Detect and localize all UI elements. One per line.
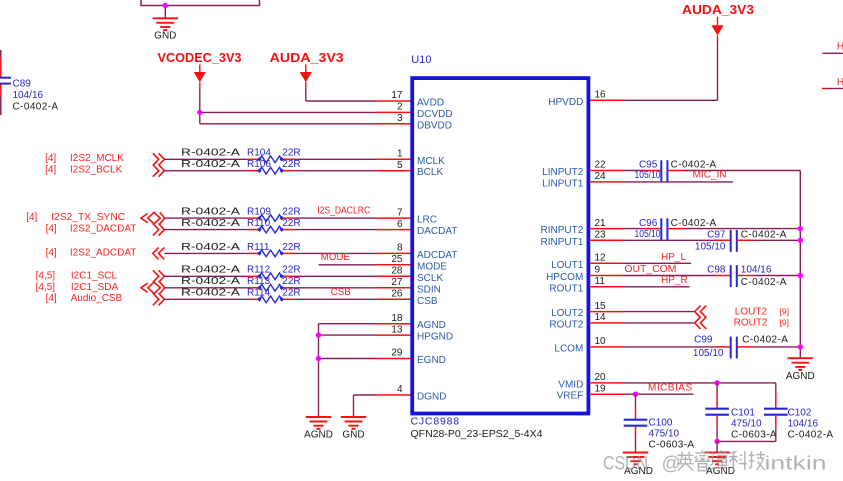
svg-text:HP_L: HP_L [661,252,686,263]
svg-text:I2S2_TX_SYNC: I2S2_TX_SYNC [51,212,125,223]
svg-text:23: 23 [595,230,607,241]
svg-text:27: 27 [391,277,403,288]
svg-text:C-0402-A: C-0402-A [741,277,787,288]
svg-text:AGND: AGND [417,320,446,331]
svg-text:C-0402-A: C-0402-A [13,101,59,112]
svg-text:22R: 22R [282,265,300,276]
svg-text:17: 17 [391,90,403,101]
svg-text:R-0402-A: R-0402-A [181,276,240,287]
svg-text:HPVDD: HPVDD [548,97,583,108]
svg-text:7: 7 [397,207,403,218]
svg-text:ROUT1: ROUT1 [549,283,583,294]
svg-text:22: 22 [595,160,607,171]
svg-text:22R: 22R [282,218,300,229]
svg-text:SCLK: SCLK [417,273,443,284]
svg-text:R-0402-A: R-0402-A [181,265,240,276]
svg-text:2: 2 [397,102,403,113]
svg-text:19: 19 [595,383,607,394]
svg-text:[4]: [4] [45,164,56,175]
svg-text:4: 4 [397,384,403,395]
svg-text:R112: R112 [247,265,271,276]
svg-text:OUT_COM: OUT_COM [624,263,676,275]
svg-text:GND: GND [154,31,176,42]
svg-text:R110: R110 [247,218,271,229]
svg-text:SDIN: SDIN [417,284,441,295]
svg-text:BCLK: BCLK [417,167,443,178]
svg-text:LRC: LRC [417,215,437,226]
svg-text:C96: C96 [639,218,658,229]
svg-text:R111: R111 [247,242,270,253]
svg-text:CSB: CSB [417,296,438,307]
svg-text:[4]: [4] [45,153,56,164]
svg-text:AUDA_3V3: AUDA_3V3 [270,50,344,65]
svg-text:[4,5]: [4,5] [36,270,56,281]
svg-text:22R: 22R [282,288,300,299]
svg-text:6: 6 [397,219,403,230]
svg-text:3: 3 [397,113,403,124]
svg-text:RINPUT1: RINPUT1 [541,237,584,248]
svg-text:H: H [837,42,843,53]
svg-text:DGND: DGND [417,392,446,403]
svg-text:I2C1_SDA: I2C1_SDA [71,282,119,293]
svg-text:R-0402-A: R-0402-A [181,288,240,299]
svg-text:24: 24 [595,171,607,182]
svg-text:C-0603-A: C-0603-A [731,429,777,440]
svg-text:C99: C99 [694,334,713,345]
svg-text:R-0402-A: R-0402-A [181,159,240,170]
svg-text:Audio_CSB: Audio_CSB [71,293,123,304]
svg-text:R-0402-A: R-0402-A [181,218,240,229]
svg-text:R113: R113 [247,276,271,287]
svg-text:C102: C102 [788,407,812,418]
svg-text:LOUT1: LOUT1 [551,260,584,271]
svg-text:[4]: [4] [26,212,37,223]
svg-text:GND: GND [342,430,364,441]
svg-text:C-0402-A: C-0402-A [741,230,787,241]
svg-text:CJC8988: CJC8988 [411,416,460,428]
svg-text:22R: 22R [282,276,300,287]
svg-text:104/16: 104/16 [741,264,772,275]
svg-text:22R: 22R [282,207,300,218]
svg-text:[4]: [4] [46,293,57,304]
svg-text:11: 11 [595,276,606,287]
svg-text:I2S2_ADCDAT: I2S2_ADCDAT [70,248,137,259]
svg-text:MODE: MODE [321,252,350,263]
svg-text:29: 29 [391,348,403,359]
svg-text:LINPUT2: LINPUT2 [542,167,584,178]
svg-text:VMID: VMID [558,379,583,390]
svg-text:R106: R106 [247,159,271,170]
svg-text:ROUT2: ROUT2 [734,317,768,328]
svg-text:26: 26 [391,289,403,300]
svg-text:12: 12 [595,253,607,264]
svg-text:AGND: AGND [786,371,815,382]
svg-text:LCOM: LCOM [554,343,583,354]
svg-text:105/10: 105/10 [635,229,661,240]
svg-text:I2S2_BCLK: I2S2_BCLK [70,164,123,175]
svg-text:22R: 22R [282,148,300,159]
svg-text:15: 15 [595,301,607,312]
svg-text:HPGND: HPGND [417,332,453,343]
svg-text:C97: C97 [707,230,726,241]
svg-text:HPCOM: HPCOM [546,272,583,283]
svg-text:9: 9 [595,265,601,276]
svg-text:C-0402-A: C-0402-A [671,218,717,229]
svg-text:C-0402-A: C-0402-A [788,429,834,440]
svg-text:LOUT2: LOUT2 [551,308,584,319]
svg-text:ADCDAT: ADCDAT [417,250,457,261]
svg-text:[4]: [4] [46,248,57,259]
svg-text:AUDA_3V3: AUDA_3V3 [682,2,754,17]
svg-text:104/16: 104/16 [788,418,819,429]
svg-text:CSB: CSB [331,287,351,298]
svg-text:10: 10 [595,336,607,347]
svg-text:22R: 22R [282,159,300,170]
svg-text:8: 8 [397,243,403,254]
svg-text:H: H [837,77,843,88]
svg-text:I2S2_DACDAT: I2S2_DACDAT [70,224,137,235]
svg-text:28: 28 [391,266,403,277]
svg-text:MIC_IN: MIC_IN [693,169,727,180]
svg-text:C-0402-A: C-0402-A [742,334,788,345]
svg-text:C100: C100 [649,417,673,428]
svg-text:QFN28-P0_23-EPS2_5-4X4: QFN28-P0_23-EPS2_5-4X4 [411,428,543,440]
svg-text:[4]: [4] [46,224,57,235]
svg-text:VCODEC_3V3: VCODEC_3V3 [158,50,242,65]
svg-text:I2S2_MCLK: I2S2_MCLK [70,153,124,164]
svg-text:25: 25 [391,254,403,265]
svg-text:DACDAT: DACDAT [417,226,457,237]
svg-text:AVDD: AVDD [417,98,444,109]
svg-text:C89: C89 [13,79,32,90]
svg-text:CSDN: CSDN [603,454,648,475]
svg-text:21: 21 [595,218,607,229]
svg-text:20: 20 [595,372,607,383]
svg-text:[9]: [9] [780,307,789,317]
svg-text:R-0402-A: R-0402-A [181,148,240,159]
svg-text:ROUT2: ROUT2 [549,319,583,330]
svg-text:MICBIAS: MICBIAS [648,382,693,393]
svg-text:C-0603-A: C-0603-A [649,439,695,450]
svg-text:R-0402-A: R-0402-A [181,207,240,218]
svg-text:1: 1 [397,149,403,160]
svg-text:RINPUT2: RINPUT2 [541,225,584,236]
svg-text:5: 5 [397,160,403,171]
svg-text:104/16: 104/16 [13,90,44,101]
svg-text:HP_R: HP_R [661,275,688,286]
svg-text:13: 13 [391,324,403,335]
svg-text:475/10: 475/10 [731,418,762,429]
svg-text:C101: C101 [731,407,755,418]
svg-text:16: 16 [595,90,607,101]
svg-text:R104: R104 [247,148,271,159]
svg-text:intkin: intkin [765,454,827,475]
svg-text:R-0402-A: R-0402-A [181,242,240,253]
svg-text:105/10: 105/10 [693,348,724,359]
svg-text:DCVDD: DCVDD [417,109,453,120]
svg-text:14: 14 [595,312,607,323]
svg-text:C98: C98 [707,264,726,275]
svg-text:MODE: MODE [417,261,447,272]
svg-text:22R: 22R [282,242,300,253]
svg-text:[4,5]: [4,5] [36,282,56,293]
svg-text:AGND: AGND [304,430,333,441]
svg-text:105/10: 105/10 [635,170,661,181]
svg-text:105/10: 105/10 [695,241,726,252]
svg-text:DBVDD: DBVDD [417,120,452,131]
svg-text:I2C1_SCL: I2C1_SCL [71,270,118,281]
svg-text:EGND: EGND [417,355,446,366]
svg-text:VREF: VREF [557,391,584,402]
svg-text:R109: R109 [247,207,271,218]
svg-text:U10: U10 [411,54,431,66]
svg-text:LINPUT1: LINPUT1 [542,178,584,189]
svg-text:475/10: 475/10 [649,428,680,439]
svg-text:R114: R114 [247,288,271,299]
svg-text:MCLK: MCLK [417,156,445,167]
svg-text:I2S_DACLRC: I2S_DACLRC [317,206,370,217]
svg-text:[9]: [9] [780,317,789,327]
svg-text:LOUT2: LOUT2 [735,307,768,318]
svg-text:18: 18 [391,313,403,324]
